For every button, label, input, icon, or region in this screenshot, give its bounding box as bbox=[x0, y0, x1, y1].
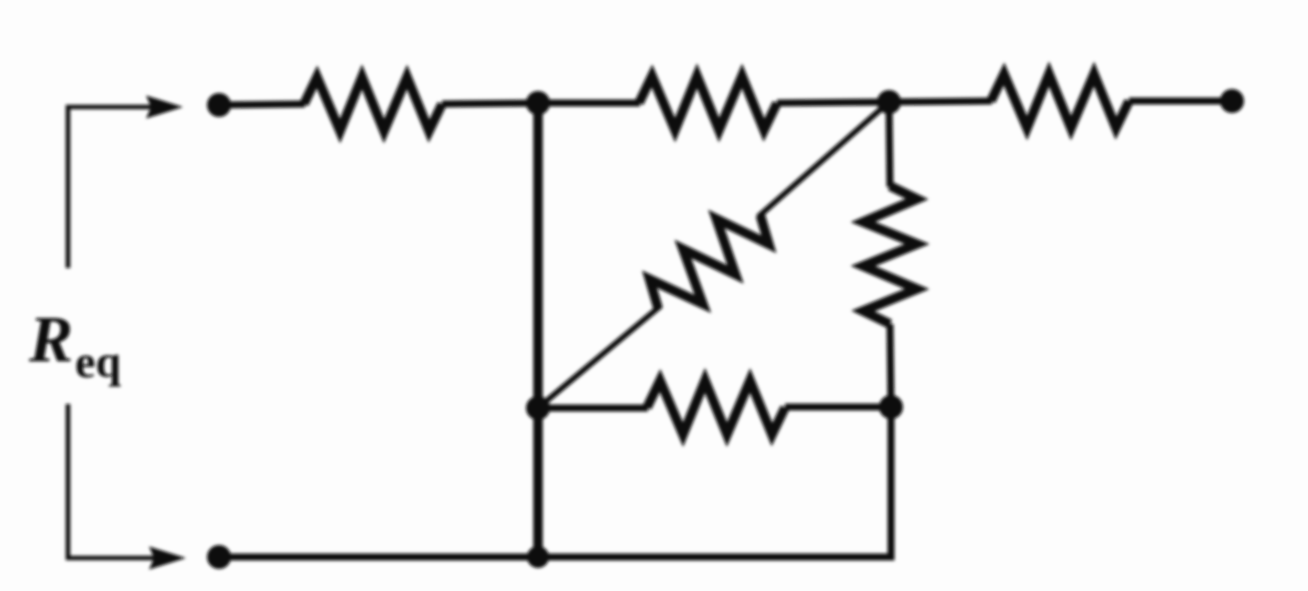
node B junction dot bbox=[526, 91, 550, 115]
wire F to R4 bbox=[538, 405, 648, 412]
wire B down to bottom rail bbox=[533, 103, 543, 557]
Req bracket top arm bbox=[68, 107, 152, 268]
resistor R1 bbox=[304, 77, 442, 131]
bottom rail wire bbox=[222, 403, 891, 557]
resistor R3 bbox=[991, 74, 1129, 128]
node D terminal dot bbox=[1220, 89, 1244, 113]
wire C to R3 bbox=[889, 101, 992, 102]
wire R1 to node B bbox=[442, 103, 540, 104]
bottom junction dot bbox=[527, 546, 549, 568]
wire R3 to node D bbox=[1129, 98, 1230, 105]
resistor R2 bbox=[639, 76, 777, 130]
wire F to R6 bbox=[538, 306, 661, 409]
wire R2 to node C bbox=[777, 102, 890, 103]
wire R5 to node G bbox=[890, 324, 891, 407]
wire R4 to node G bbox=[785, 404, 891, 411]
wire A to R1 bbox=[222, 104, 305, 105]
node C junction dot bbox=[877, 90, 901, 114]
wire B to R2 bbox=[538, 100, 640, 107]
node F junction dot bbox=[526, 396, 550, 420]
wire C down to R5 bbox=[889, 102, 890, 187]
Req bracket bottom arm bbox=[68, 404, 155, 558]
node E terminal dot bbox=[207, 545, 231, 569]
wire R6 to node C bbox=[758, 102, 889, 217]
arrowhead top bbox=[146, 96, 183, 119]
node A terminal dot bbox=[207, 93, 231, 117]
node G junction dot bbox=[879, 395, 903, 419]
resistor R4 bbox=[647, 381, 785, 435]
arrowhead bottom bbox=[149, 547, 186, 570]
resistor R6 bbox=[640, 195, 779, 328]
resistor R5 bbox=[863, 186, 917, 324]
